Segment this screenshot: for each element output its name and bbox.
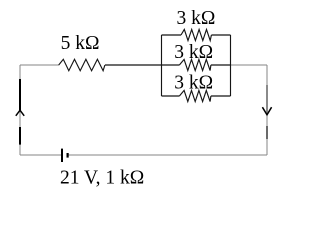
- svg-text:5 kΩ: 5 kΩ: [61, 33, 100, 54]
- svg-text:21 V, 1 kΩ: 21 V, 1 kΩ: [60, 167, 144, 188]
- svg-text:3 kΩ: 3 kΩ: [174, 73, 213, 94]
- svg-text:3 kΩ: 3 kΩ: [177, 8, 216, 29]
- svg-text:3 kΩ: 3 kΩ: [174, 42, 213, 63]
